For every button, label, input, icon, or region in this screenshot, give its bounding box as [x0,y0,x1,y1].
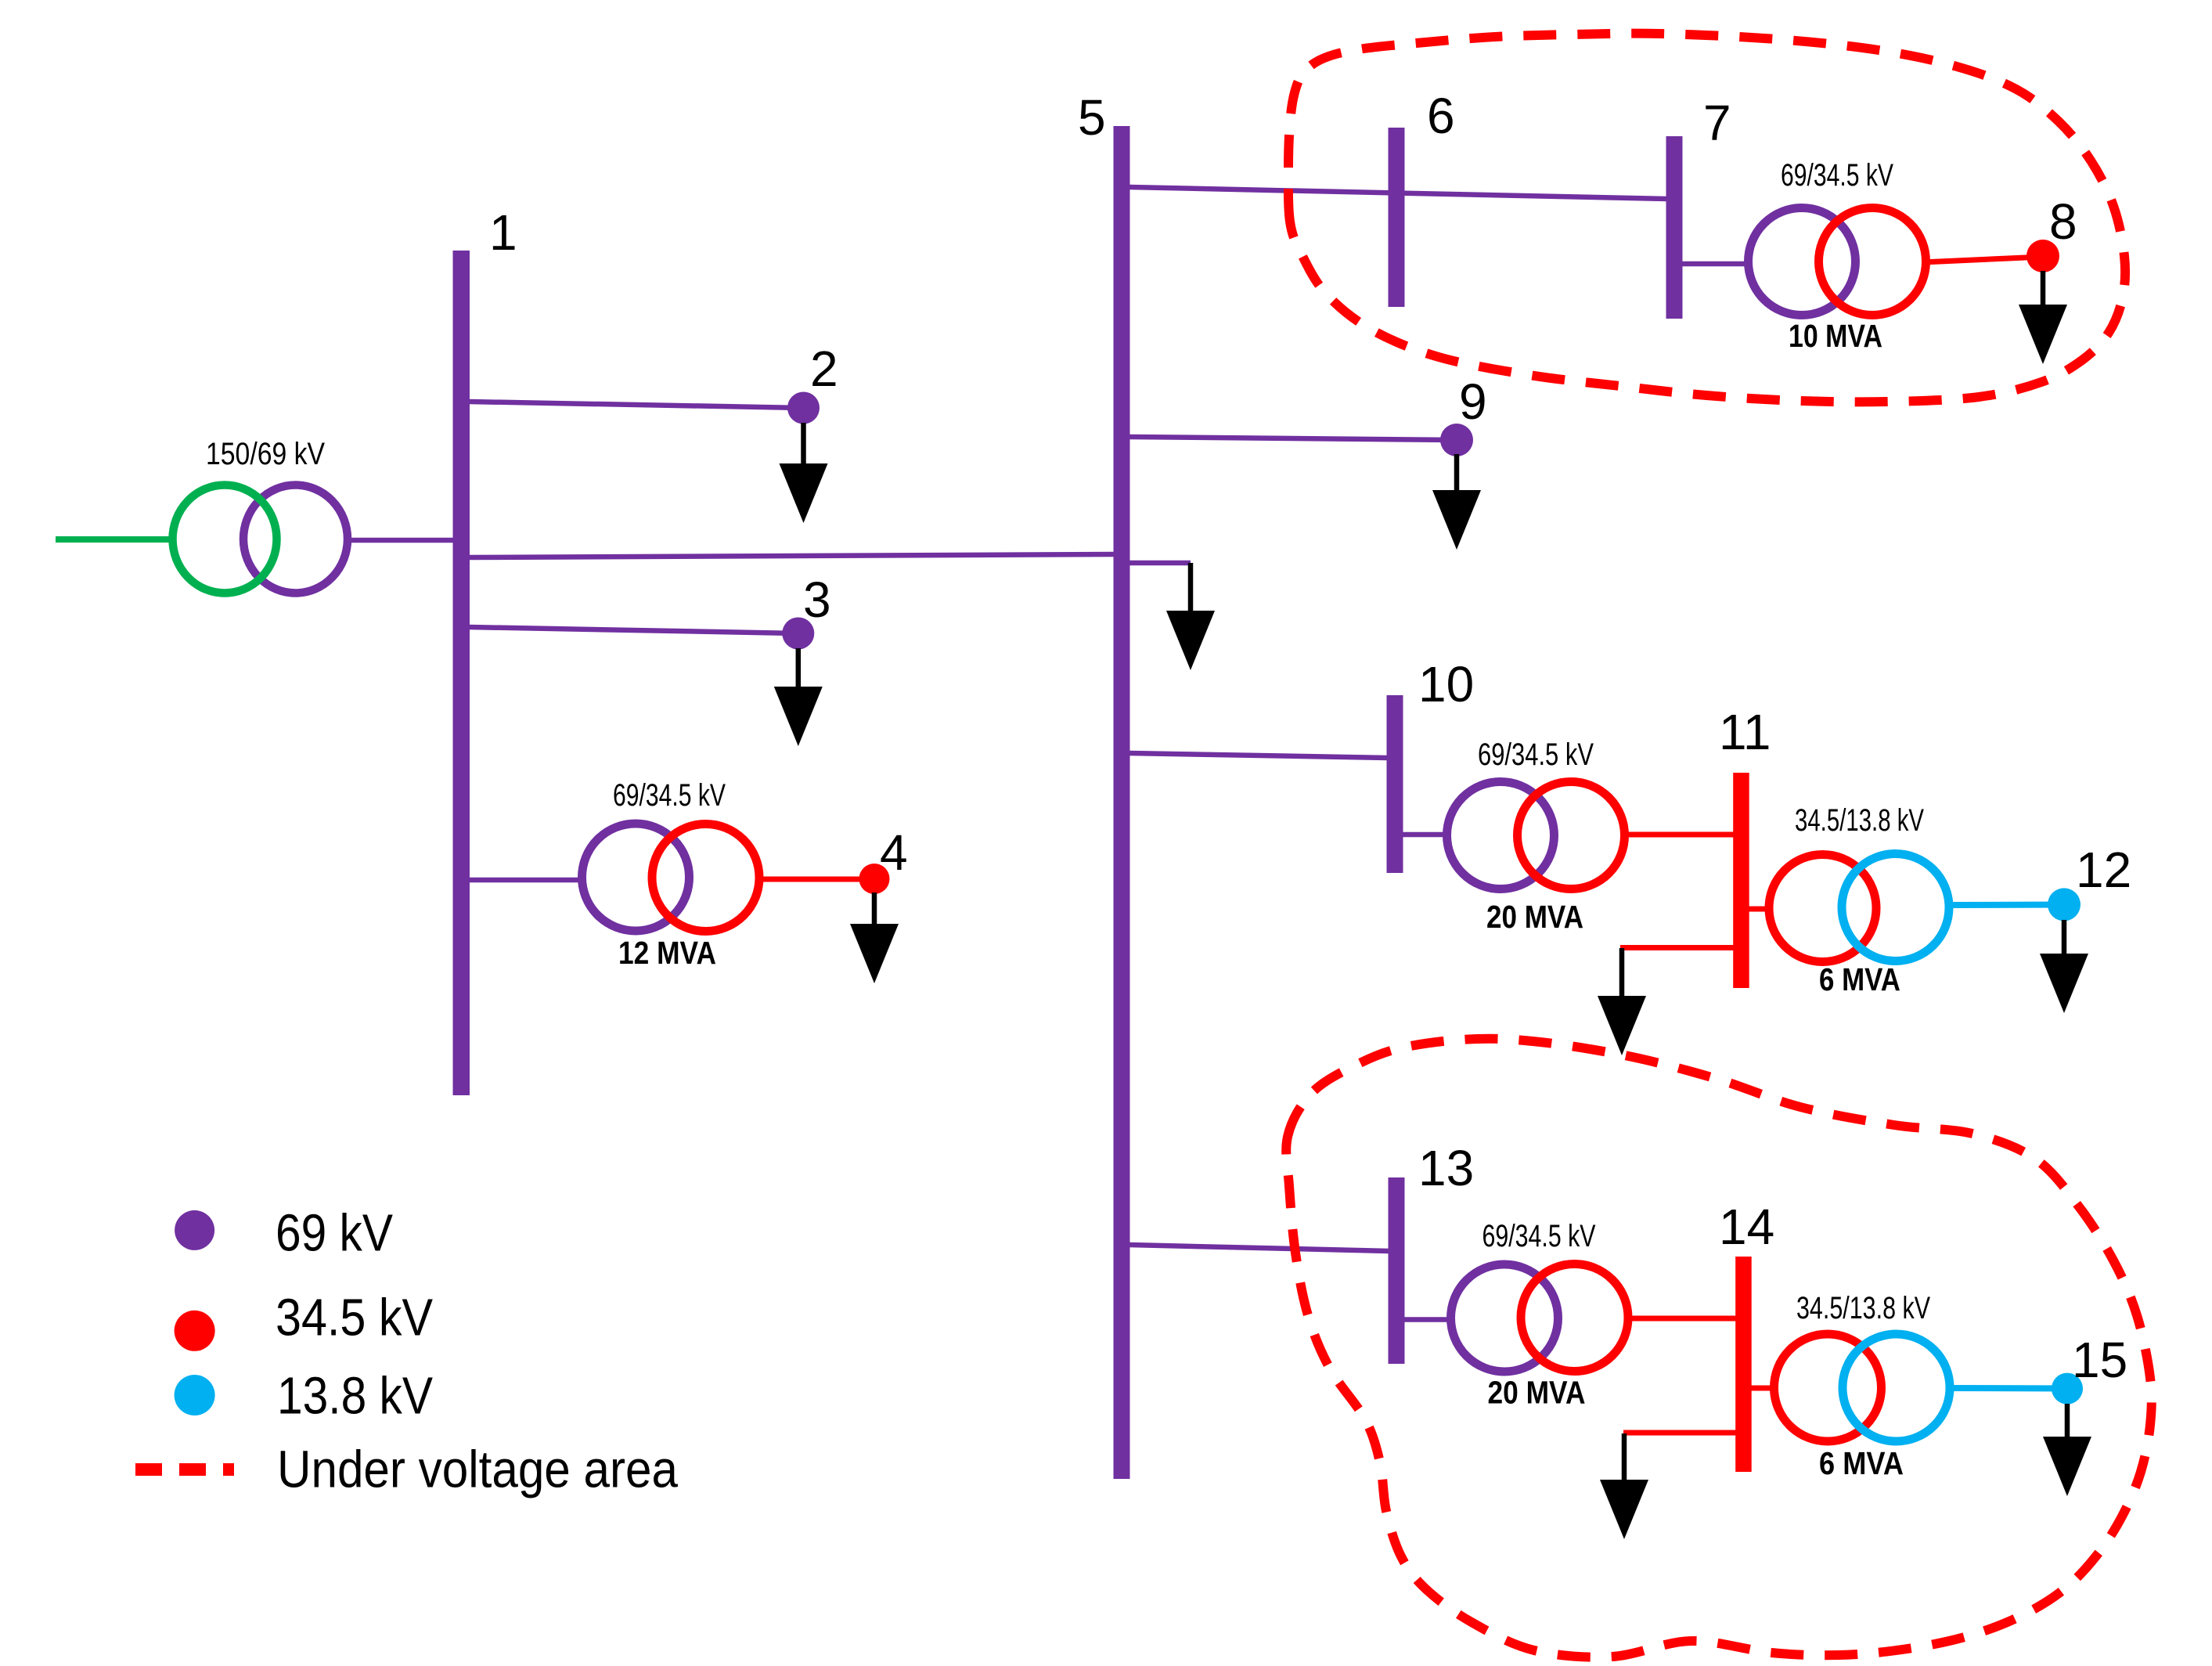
load arrow at node 2 [780,423,828,523]
load arrow at node 15 [2043,1404,2091,1496]
svg-text:20 MVA: 20 MVA [1488,1375,1586,1411]
node 15 [2052,1373,2083,1405]
svg-text:Under voltage area: Under voltage area [277,1441,679,1499]
svg-text:7: 7 [1703,95,1731,151]
label node 3 [803,572,831,628]
svg-text:12 MVA: 12 MVA [618,935,716,971]
wire bus 5 load stub [1129,561,1191,566]
bus 7 [1666,136,1683,319]
legend 34.5 kV marker [175,1311,215,1351]
svg-text:1: 1 [489,204,517,261]
label T6 20 MVA [1488,1375,1586,1411]
label bus 1 [489,204,517,261]
load arrow at node 4 [850,892,899,983]
svg-text:69/34.5 kV: 69/34.5 kV [1478,737,1594,772]
svg-text:15: 15 [2072,1332,2127,1388]
label bus 14 [1719,1199,1774,1255]
node 9 [1440,424,1473,456]
label bus 6 [1427,88,1455,144]
label bus 11 [1719,704,1771,760]
transformer T3 secondary winding 34.5 kV [1819,208,1926,316]
transformer T1 150/69 kV secondary winding [243,485,348,593]
bus 5 [1114,126,1130,1479]
svg-text:9: 9 [1459,373,1487,430]
wire bus 1 to node 3 [469,627,798,633]
wire bus 1 to node 2 [469,402,803,408]
wire bus 14 load tap [1623,1430,1736,1436]
wire grid source (green) [56,536,174,543]
svg-text:6 MVA: 6 MVA [1819,961,1900,997]
label node 2 [810,341,838,397]
svg-text:34.5 kV: 34.5 kV [276,1289,433,1347]
svg-text:12: 12 [2076,842,2131,898]
label T4 69/34.5 kV [1478,737,1594,772]
bus 10 [1387,695,1403,873]
svg-text:69/34.5 kV: 69/34.5 kV [613,778,726,813]
label bus 10 [1418,656,1474,712]
transformer T1 150/69 kV primary winding [173,485,277,593]
under voltage area boundary (top) [1288,34,2125,402]
wire bus 11 to transformer T5 [1748,907,1772,912]
legend 69 kV marker [175,1210,214,1250]
node 8 [2026,240,2059,272]
legend 34.5 kV text [276,1289,433,1347]
wire bus 7 to transformer T3 [1681,261,1752,267]
label node 15 [2072,1332,2127,1388]
wire bus 10 to transformer T4 [1402,832,1449,838]
label bus 13 [1418,1140,1474,1196]
load arrow at node 9 [1432,454,1481,550]
transformer T2 primary winding 69 kV [582,824,690,931]
legend 69 kV text [276,1204,393,1263]
svg-text:6: 6 [1427,88,1455,144]
transformer T6 secondary winding 34.5 kV [1521,1264,1628,1372]
transformer T6 primary winding 69 kV [1451,1264,1558,1372]
legend under voltage area text [277,1441,679,1499]
bus 1 [453,251,470,1095]
label node 8 [2049,193,2077,250]
load arrow on bus 11 [1598,948,1646,1055]
svg-text:69 kV: 69 kV [276,1204,393,1263]
wire T3 to node 8 [1922,257,2043,262]
wire T6 to bus 14 [1627,1316,1736,1322]
bus 11 [1733,773,1749,988]
wire bus 1 to transformer T2 [469,878,584,883]
node 3 [782,618,814,650]
load arrow on bus 14 [1600,1433,1648,1539]
transformer T4 secondary winding 34.5 kV [1518,782,1625,889]
node 4 [859,864,890,894]
bus 6 [1389,128,1405,307]
label T5 6 MVA [1819,961,1900,997]
svg-text:11: 11 [1719,704,1771,760]
transformer T7 primary winding 34.5 kV [1774,1334,1882,1441]
svg-text:69/34.5 kV: 69/34.5 kV [1781,158,1893,193]
svg-text:20 MVA: 20 MVA [1486,899,1583,935]
label T5 34.5/13.8 kV [1795,803,1924,838]
label T3 10 MVA [1789,318,1882,354]
svg-text:13: 13 [1418,1140,1474,1196]
svg-text:34.5/13.8 kV: 34.5/13.8 kV [1796,1291,1930,1325]
label T2 12 MVA [618,935,716,971]
wire T1 to bus 1 [348,538,456,543]
wire bus 13 to transformer T6 [1403,1317,1453,1322]
label T1 150/69 kV [206,437,325,471]
label bus 5 [1078,89,1106,146]
label bus 7 [1703,95,1731,151]
bus 13 [1389,1177,1405,1364]
label node 12 [2076,842,2131,898]
svg-text:34.5/13.8 kV: 34.5/13.8 kV [1795,803,1924,838]
label T2 69/34.5 kV [613,778,726,813]
label T7 34.5/13.8 kV [1796,1291,1930,1325]
transformer T3 primary winding 69 kV [1749,208,1856,316]
wire bus 5 to bus 10 [1129,753,1388,758]
wire T2 to node 4 [756,877,874,882]
transformer T7 secondary winding 13.8 kV [1843,1334,1950,1441]
wire bus 14 to transformer T7 [1751,1386,1776,1391]
node 12 [2048,888,2081,921]
under voltage area boundary (bottom) [1286,1039,2152,1657]
wire bus 1 to bus 5 [469,554,1115,557]
svg-text:3: 3 [803,572,831,628]
bus 14 [1735,1257,1752,1472]
svg-text:14: 14 [1719,1199,1774,1255]
wire bus 5 to node 9 [1129,437,1457,440]
wire bus 5 to bus 6 to bus 7 [1129,187,1667,199]
svg-text:150/69 kV: 150/69 kV [206,437,325,471]
legend under voltage area dashed sample [135,1463,234,1476]
svg-text:13.8 kV: 13.8 kV [277,1367,433,1426]
label node 4 [880,824,908,881]
svg-text:10: 10 [1418,656,1474,712]
svg-text:5: 5 [1078,89,1106,146]
wire bus 5 to bus 13 [1129,1245,1389,1251]
label T4 20 MVA [1486,899,1583,935]
svg-text:4: 4 [880,824,908,881]
wire T4 to bus 11 [1623,832,1735,838]
transformer T5 primary winding 34.5 kV [1769,855,1876,962]
svg-text:8: 8 [2049,193,2077,250]
wire T5 to node 12 [1947,902,2064,909]
svg-text:69/34.5 kV: 69/34.5 kV [1482,1219,1596,1253]
legend 13.8 kV marker [175,1375,215,1415]
load arrow at node 8 [2019,271,2067,364]
svg-text:6 MVA: 6 MVA [1819,1445,1904,1481]
svg-text:2: 2 [810,341,838,397]
transformer T4 primary winding 69 kV [1447,782,1555,889]
transformer T2 secondary winding 34.5 kV [652,824,759,932]
legend 13.8 kV text [277,1367,433,1426]
label T3 69/34.5 kV [1781,158,1893,193]
node 2 [787,392,820,424]
transformer T5 secondary winding 13.8 kV [1842,854,1949,961]
label T6 69/34.5 kV [1482,1219,1596,1253]
load arrow on bus 5 [1166,563,1215,670]
wire T7 to node 15 [1947,1385,2067,1392]
label node 9 [1459,373,1487,430]
label T7 6 MVA [1819,1445,1904,1481]
svg-text:10 MVA: 10 MVA [1789,318,1882,354]
load arrow at node 3 [774,648,823,746]
load arrow at node 12 [2040,920,2088,1013]
wire bus 11 load tap [1620,945,1735,950]
